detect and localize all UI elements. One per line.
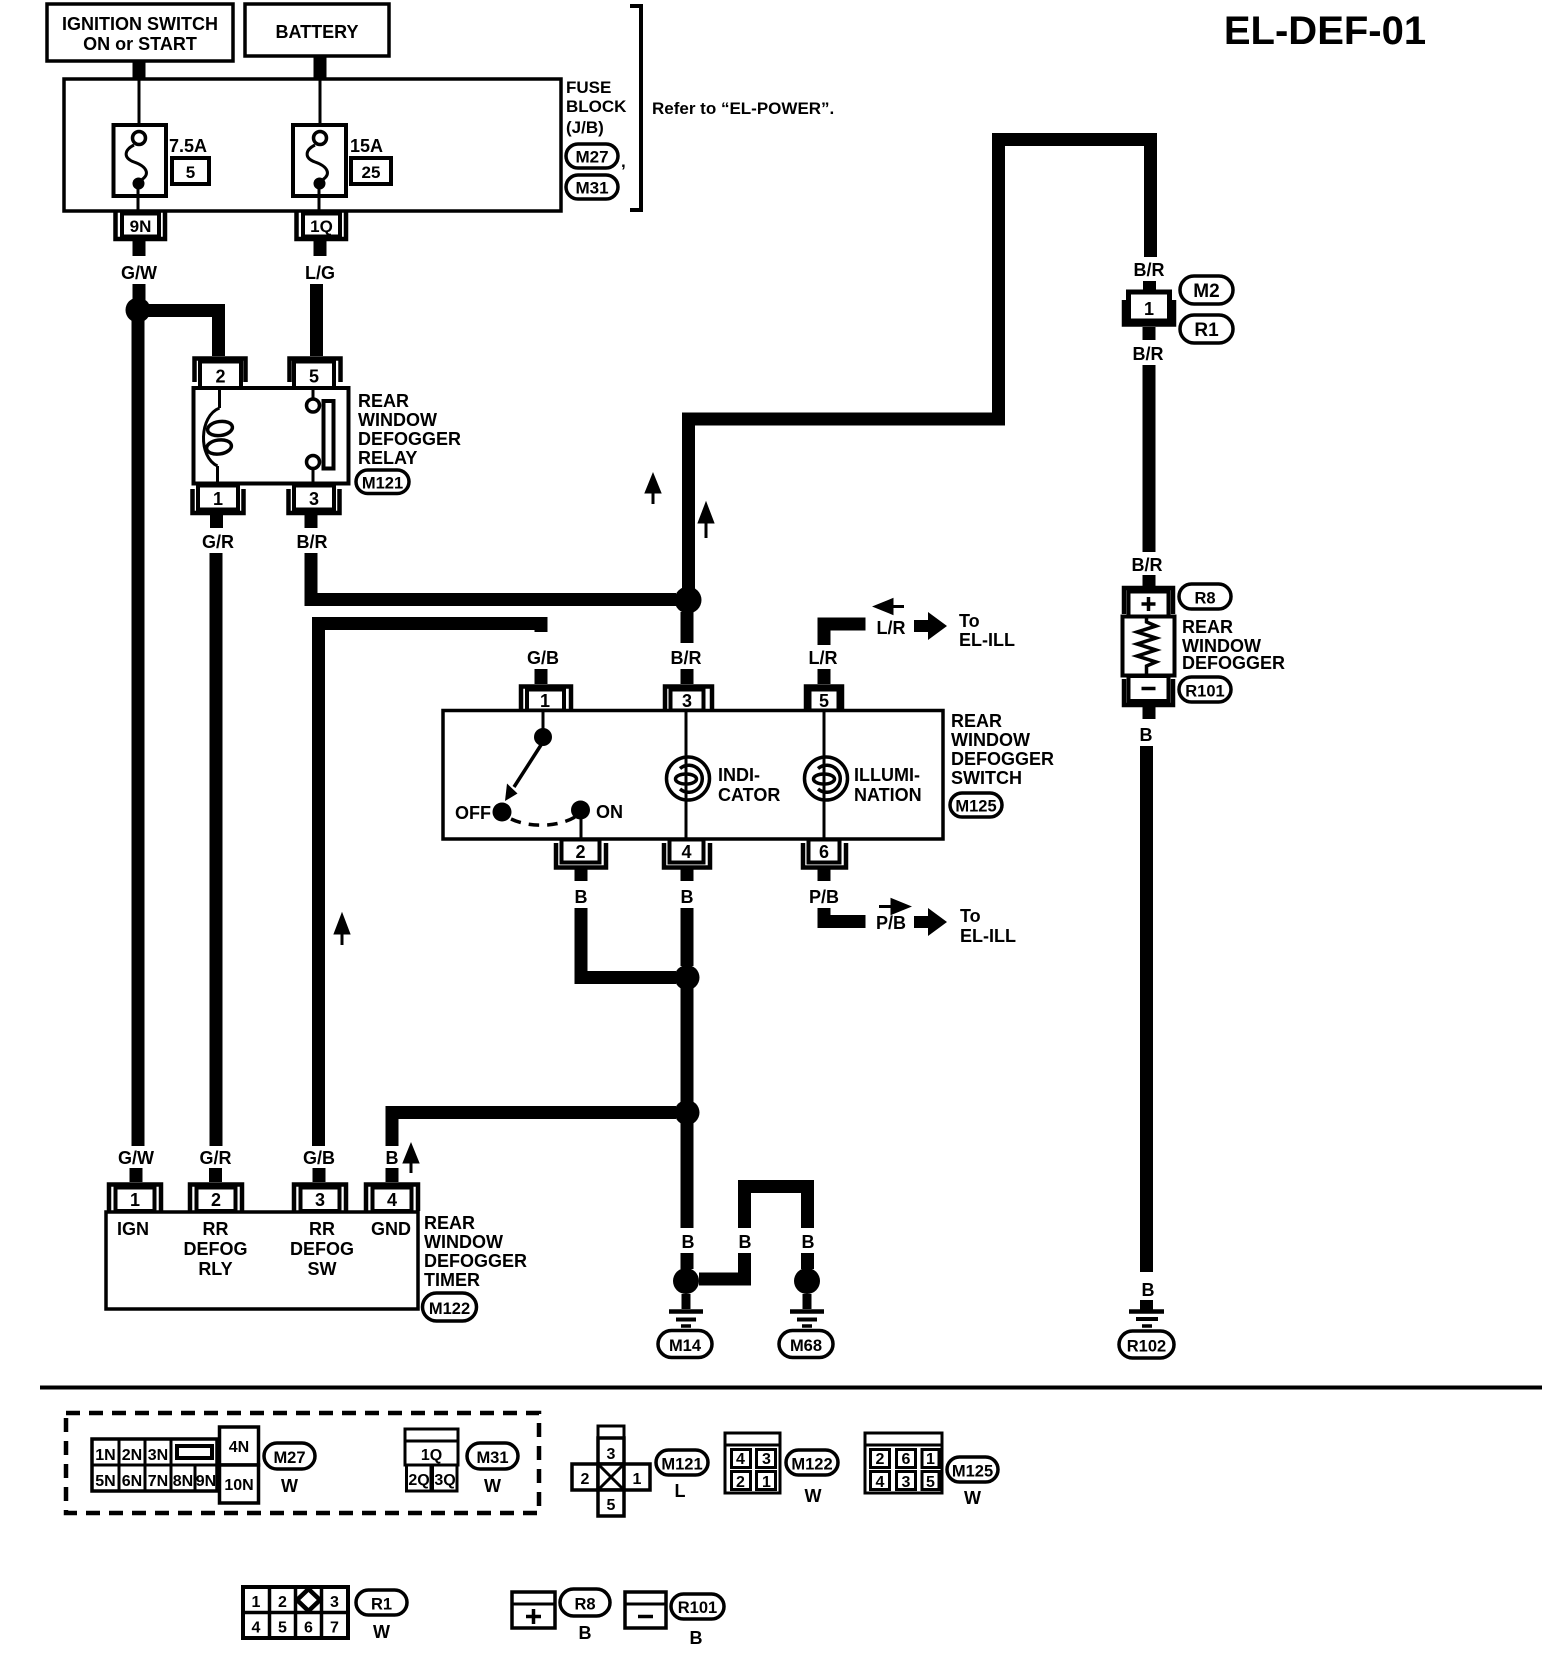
svg-text:(J/B): (J/B) (566, 118, 604, 137)
svg-text:Refer to “EL-POWER”.: Refer to “EL-POWER”. (652, 99, 834, 118)
connector oval M2 (1180, 276, 1233, 304)
svg-text:W: W (805, 1486, 822, 1506)
svg-text:ON: ON (596, 802, 623, 822)
svg-text:5: 5 (309, 367, 319, 387)
svg-text:5: 5 (926, 1474, 935, 1491)
small arrow left L/R (876, 600, 904, 613)
illumination label (854, 765, 922, 805)
svg-text:W: W (484, 1476, 501, 1496)
svg-text:G/R: G/R (199, 1148, 231, 1168)
timer label (424, 1213, 527, 1290)
connector oval M122 (423, 1293, 477, 1321)
svg-text:B: B (682, 1232, 695, 1252)
svg-text:2: 2 (876, 1451, 885, 1468)
legend connector R1 grid (243, 1587, 348, 1638)
switch label (951, 711, 1054, 788)
svg-text:EL-ILL: EL-ILL (959, 630, 1015, 650)
wire label B/R (297, 532, 328, 552)
relay pin 2 (195, 359, 246, 389)
wire label G/R (202, 532, 234, 552)
small arrow right P/B (879, 900, 908, 913)
svg-text:M121: M121 (362, 475, 403, 493)
legend dashed box (66, 1413, 539, 1513)
svg-text:W: W (281, 1476, 298, 1496)
timer M122 box (106, 1212, 418, 1309)
svg-text:M125: M125 (955, 798, 996, 816)
ground node M14 (673, 1268, 699, 1294)
svg-text:2N: 2N (122, 1447, 142, 1464)
svg-text:1: 1 (633, 1471, 642, 1488)
rear window defogger element (1123, 617, 1175, 677)
illumination lamp (805, 710, 848, 839)
defogger plus terminal R8 (1124, 588, 1173, 617)
wire B/R junction to switch pin 3 (681, 612, 694, 643)
switch contact and lever (493, 710, 591, 839)
timer pin 2 (190, 1185, 242, 1212)
wire B/R riser to top right trunk (689, 140, 1151, 601)
svg-text:R101: R101 (678, 1599, 717, 1617)
wire B/R from relay pin 3 to junction (311, 553, 676, 600)
svg-text:DEFOGGER: DEFOGGER (424, 1251, 527, 1271)
junction node B/R (675, 587, 702, 614)
svg-text:IGN: IGN (117, 1219, 149, 1239)
wire stub above connector 1 (1143, 281, 1156, 293)
wire P/B to EL-ILL (824, 908, 866, 922)
timer pin 1 (109, 1185, 161, 1212)
switch ON label (596, 802, 623, 822)
title EL-DEF-01 (1224, 9, 1426, 53)
wire stub to M14 dot (681, 1253, 694, 1269)
legend oval M121 (656, 1450, 708, 1501)
svg-text:EL-ILL: EL-ILL (960, 926, 1016, 946)
svg-text:DEFOGGER: DEFOGGER (1182, 653, 1285, 673)
wire label B/R below connector 1 (1133, 344, 1164, 364)
wire label G/B above switch pin 1 (527, 648, 559, 668)
connector oval M121 (356, 470, 409, 494)
svg-text:RELAY: RELAY (358, 448, 417, 468)
junction node G/W (126, 298, 151, 323)
wire stub to switch pin 1 (535, 669, 548, 684)
svg-text:4: 4 (387, 1190, 397, 1210)
svg-text:SWITCH: SWITCH (951, 768, 1022, 788)
legend connector M31 grid (405, 1429, 458, 1491)
svg-text:RR: RR (309, 1219, 335, 1239)
indicator lamp (667, 710, 710, 839)
svg-text:ON or START: ON or START (83, 34, 197, 54)
svg-text:2: 2 (278, 1594, 287, 1611)
svg-text:2: 2 (736, 1474, 745, 1491)
svg-text:4: 4 (681, 842, 691, 862)
svg-text:4: 4 (736, 1451, 745, 1468)
wire G/W down to junction (133, 284, 146, 304)
wire label B/R above defogger (1132, 555, 1163, 575)
wire inside block to fuse 1 (138, 79, 141, 130)
svg-text:R8: R8 (574, 1596, 595, 1614)
relay pin 5 (290, 359, 341, 389)
fuse block box (64, 79, 561, 211)
wire label B at M14 (682, 1232, 695, 1252)
switch pin 1 (521, 687, 571, 712)
svg-text:M122: M122 (429, 1300, 470, 1318)
svg-text:M122: M122 (791, 1456, 832, 1474)
relay pin 1 (193, 486, 244, 529)
svg-text:5: 5 (607, 1497, 616, 1514)
svg-text:3: 3 (902, 1474, 911, 1491)
wire label B/R above switch pin 3 (671, 648, 702, 668)
legend connector M121 cross (572, 1426, 650, 1516)
svg-text:INDI-: INDI- (718, 765, 760, 785)
svg-text:4: 4 (876, 1474, 885, 1491)
svg-text:B: B (739, 1232, 752, 1252)
wire stub to defogger plus (1143, 575, 1156, 586)
legend connector R8 plus (512, 1592, 555, 1628)
svg-text:REAR: REAR (1182, 617, 1233, 637)
svg-text:L: L (675, 1481, 686, 1501)
junction node B (675, 965, 700, 990)
relay M121 box (194, 388, 349, 484)
switch pin 2 (556, 840, 606, 882)
fuse 15A (293, 125, 346, 211)
svg-text:To: To (960, 906, 981, 926)
separator line (40, 1386, 1542, 1390)
svg-text:9N: 9N (196, 1473, 216, 1490)
legend oval M31 (467, 1443, 518, 1496)
svg-text:6N: 6N (122, 1473, 142, 1490)
switch pin 5 (806, 687, 842, 712)
svg-text:P/B: P/B (876, 913, 906, 933)
svg-text:1Q: 1Q (421, 1447, 442, 1464)
relay contact (307, 388, 334, 484)
connector 1Q (297, 212, 347, 256)
svg-text:L/R: L/R (877, 618, 906, 638)
svg-text:5: 5 (278, 1620, 287, 1637)
svg-text:15A: 15A (350, 136, 383, 156)
svg-text:IGNITION SWITCH: IGNITION SWITCH (62, 14, 218, 34)
wire label B above ground R102 (1142, 1280, 1155, 1300)
legend connector M27 grid (92, 1439, 217, 1491)
svg-text:CATOR: CATOR (718, 785, 780, 805)
flow arrow up right (700, 505, 713, 538)
svg-text:3Q: 3Q (434, 1472, 455, 1489)
legend connector M27 4N 10N cells (220, 1427, 259, 1503)
junction node B timer (675, 1100, 700, 1125)
svg-text:B: B (1142, 1280, 1155, 1300)
relay label (358, 391, 461, 468)
svg-text:5: 5 (186, 163, 195, 182)
svg-text:B: B (1140, 725, 1153, 745)
svg-text:6: 6 (902, 1451, 911, 1468)
svg-text:2: 2 (215, 367, 225, 387)
svg-text:1N: 1N (95, 1447, 115, 1464)
inline connector 1 M2/R1 (1124, 292, 1174, 340)
svg-text:3N: 3N (148, 1447, 168, 1464)
svg-text:GND: GND (371, 1219, 411, 1239)
svg-text:,: , (621, 152, 626, 171)
svg-text:M2: M2 (1193, 281, 1219, 302)
switch pin 4 (664, 840, 710, 882)
svg-text:2: 2 (575, 842, 585, 862)
svg-text:B: B (575, 887, 588, 907)
fuse 1 label 7.5A (169, 136, 209, 184)
wire B timer GND run (392, 1113, 676, 1183)
wire ignition to fuse block (133, 61, 146, 80)
svg-text:7.5A: 7.5A (169, 136, 207, 156)
switch OFF label (455, 803, 491, 823)
connector oval M31 (566, 175, 618, 199)
svg-text:EL-DEF-01: EL-DEF-01 (1224, 9, 1426, 53)
switch pin 6 (803, 840, 846, 882)
wire label L/R above switch pin 5 (809, 648, 838, 668)
svg-text:REAR: REAR (358, 391, 409, 411)
svg-text:1: 1 (1144, 299, 1154, 319)
svg-text:1: 1 (130, 1190, 140, 1210)
wire branch junction to relay pin 2 (144, 311, 219, 357)
fuse 7.5A (114, 125, 167, 211)
svg-text:M68: M68 (790, 1337, 822, 1355)
svg-text:BATTERY: BATTERY (276, 22, 359, 42)
svg-text:R8: R8 (1194, 590, 1215, 608)
svg-text:3: 3 (682, 691, 692, 711)
svg-text:R101: R101 (1185, 683, 1224, 701)
timer pin 4 (366, 1185, 418, 1212)
svg-text:OFF: OFF (455, 803, 491, 823)
legend oval M27 (264, 1443, 315, 1496)
svg-text:1: 1 (213, 489, 223, 509)
battery box (245, 4, 389, 56)
svg-text:M27: M27 (273, 1449, 305, 1467)
svg-text:TIMER: TIMER (424, 1270, 480, 1290)
svg-text:B/R: B/R (1133, 344, 1164, 364)
svg-text:NATION: NATION (854, 785, 922, 805)
wire label G/W (121, 263, 157, 283)
svg-text:B: B (802, 1232, 815, 1252)
connector oval R1 (1180, 315, 1233, 343)
svg-text:5N: 5N (95, 1473, 115, 1490)
svg-text:B/R: B/R (671, 648, 702, 668)
svg-text:G/R: G/R (202, 532, 234, 552)
svg-text:DEFOG: DEFOG (183, 1239, 247, 1259)
svg-text:1: 1 (252, 1594, 261, 1611)
svg-text:WINDOW: WINDOW (951, 730, 1030, 750)
svg-text:1: 1 (540, 691, 550, 711)
svg-text:25: 25 (362, 163, 381, 182)
connector oval M125 (950, 793, 1002, 817)
fuse block label (566, 78, 627, 137)
svg-text:B: B (681, 887, 694, 907)
wire B pin 2 to junction (581, 908, 676, 978)
legend connector M125 grid (865, 1433, 942, 1493)
connector 9N (116, 212, 166, 256)
connector oval M14 (658, 1331, 712, 1358)
wire L/R from switch pin 5 to EL-ILL (824, 624, 866, 645)
svg-text:W: W (373, 1622, 390, 1642)
wire B to ground M14 (681, 1120, 694, 1228)
connector oval R101 (1179, 677, 1231, 702)
ground symbol M14 (669, 1294, 703, 1326)
defogger label (1182, 617, 1285, 673)
connector oval R102 (1119, 1331, 1174, 1358)
wire B/R down to defogger (1143, 365, 1156, 552)
svg-text:3: 3 (315, 1190, 325, 1210)
legend oval M122 (786, 1450, 838, 1506)
wire bridge M14 to M68 (699, 1187, 808, 1280)
svg-text:4N: 4N (229, 1439, 249, 1456)
svg-text:WINDOW: WINDOW (358, 410, 437, 430)
svg-text:DEFOGGER: DEFOGGER (358, 429, 461, 449)
svg-text:R102: R102 (1127, 1338, 1166, 1356)
svg-text:2: 2 (581, 1471, 590, 1488)
connector oval R8 (1179, 584, 1231, 609)
svg-text:1: 1 (762, 1474, 771, 1491)
relay pin 3 (289, 486, 340, 529)
svg-text:G/B: G/B (303, 1148, 335, 1168)
svg-text:WINDOW: WINDOW (424, 1232, 503, 1252)
wire label B below defogger (1140, 725, 1153, 745)
svg-text:B: B (386, 1148, 399, 1168)
wire G/B from horizontal run to timer pin 3 (319, 624, 542, 1183)
svg-text:B/R: B/R (297, 532, 328, 552)
svg-text:2Q: 2Q (408, 1472, 429, 1489)
svg-text:B: B (690, 1628, 703, 1648)
svg-text:RR: RR (203, 1219, 229, 1239)
svg-text:2: 2 (211, 1190, 221, 1210)
svg-text:1: 1 (926, 1451, 935, 1468)
big arrow to EL-ILL lower (914, 908, 947, 936)
svg-text:9N: 9N (130, 217, 152, 236)
svg-text:R1: R1 (1194, 320, 1219, 341)
wire B pin 4 down (681, 908, 694, 966)
wire stub to switch pin 5 (818, 669, 831, 684)
defogger minus terminal R101 (1124, 676, 1173, 719)
svg-text:7: 7 (330, 1620, 339, 1637)
flow arrow B timer (405, 1146, 418, 1173)
legend oval M125 (947, 1457, 998, 1508)
svg-text:3: 3 (309, 489, 319, 509)
svg-text:ILLUMI-: ILLUMI- (854, 765, 920, 785)
svg-text:5: 5 (819, 691, 829, 711)
wire label B/R top right (1134, 260, 1165, 280)
legend connector R101 minus (625, 1592, 666, 1628)
wire label G/B timer (303, 1148, 335, 1168)
svg-text:BLOCK: BLOCK (566, 97, 627, 116)
svg-text:B/R: B/R (1132, 555, 1163, 575)
wire label G/R timer (199, 1148, 231, 1168)
svg-text:L/G: L/G (305, 263, 335, 283)
svg-text:8N: 8N (173, 1473, 193, 1490)
legend oval R1 (356, 1590, 407, 1642)
svg-text:3: 3 (762, 1451, 771, 1468)
svg-text:4: 4 (252, 1620, 261, 1637)
wire G/W main vertical to timer pin 1 (136, 316, 138, 1182)
svg-text:6: 6 (819, 842, 829, 862)
svg-text:7N: 7N (148, 1473, 168, 1490)
svg-text:R1: R1 (371, 1596, 392, 1614)
svg-text:M121: M121 (661, 1456, 702, 1474)
svg-text:SW: SW (308, 1259, 337, 1279)
legend oval R8 (560, 1589, 610, 1643)
svg-text:B: B (579, 1623, 592, 1643)
svg-text:FUSE: FUSE (566, 78, 611, 97)
wire label B pin 4 (681, 887, 694, 907)
svg-text:M125: M125 (952, 1463, 993, 1481)
ground node M68 (794, 1268, 820, 1294)
wire label B timer (386, 1148, 399, 1168)
wire label B pin 2 (575, 887, 588, 907)
svg-text:G/W: G/W (118, 1148, 154, 1168)
connector oval M68 (779, 1331, 833, 1358)
svg-text:DEFOGGER: DEFOGGER (951, 749, 1054, 769)
wire L/G to relay pin 5 (310, 284, 323, 356)
wire label G/W timer (118, 1148, 154, 1168)
bracket refer (630, 6, 834, 210)
svg-text:W: W (964, 1488, 981, 1508)
svg-text:3: 3 (330, 1594, 339, 1611)
fuse 2 label 15A (350, 136, 391, 184)
timer pin labels (117, 1219, 411, 1279)
switch M125 box (443, 711, 943, 840)
svg-text:1Q: 1Q (310, 217, 333, 236)
ground R102 (1129, 1300, 1164, 1326)
svg-text:6: 6 (304, 1620, 313, 1637)
svg-text:3: 3 (607, 1446, 616, 1463)
wire B junction down to second junction (681, 985, 694, 1105)
wire label L/G (305, 263, 335, 283)
wire inside block to fuse 2 (319, 79, 322, 130)
switch pin 3 (665, 687, 712, 712)
svg-text:REAR: REAR (424, 1213, 475, 1233)
flow arrow up left (647, 476, 660, 504)
svg-text:M14: M14 (669, 1337, 702, 1355)
label To EL-ILL upper (959, 611, 1015, 650)
svg-text:DEFOG: DEFOG (290, 1239, 354, 1259)
svg-text:G/B: G/B (527, 648, 559, 668)
svg-text:P/B: P/B (809, 887, 839, 907)
wire label P/B pin 6 (809, 887, 839, 907)
wire label B bridge left (739, 1232, 752, 1252)
ignition switch box (47, 4, 233, 61)
wire label L/R at EL-ILL (877, 618, 906, 638)
svg-text:G/W: G/W (121, 263, 157, 283)
wire B down to ground R102 (1140, 746, 1153, 1272)
wire G/R vertical to timer pin 2 (209, 553, 223, 1182)
relay coil (203, 388, 233, 484)
flow arrow G/B (336, 916, 349, 945)
svg-text:B/R: B/R (1134, 260, 1165, 280)
svg-text:M31: M31 (476, 1449, 508, 1467)
label To EL-ILL lower (960, 906, 1016, 946)
svg-text:To: To (959, 611, 980, 631)
legend oval R101 (671, 1594, 724, 1648)
connector oval M27 (566, 144, 626, 171)
wire stub to switch pin 3 (681, 669, 694, 684)
svg-text:M31: M31 (575, 179, 608, 198)
svg-text:10N: 10N (224, 1477, 253, 1494)
indicator label (718, 765, 780, 805)
wire label P/B at EL-ILL (876, 913, 906, 933)
legend connector M122 grid (725, 1433, 780, 1493)
timer pin 3 (294, 1185, 346, 1212)
wire battery to fuse block (314, 56, 327, 80)
wire label B bridge right (802, 1232, 815, 1252)
svg-text:M27: M27 (575, 148, 608, 167)
big arrow to EL-ILL upper (914, 612, 947, 640)
ground symbol M68 (790, 1294, 824, 1326)
svg-text:REAR: REAR (951, 711, 1002, 731)
svg-text:RLY: RLY (198, 1259, 232, 1279)
svg-text:L/R: L/R (809, 648, 838, 668)
